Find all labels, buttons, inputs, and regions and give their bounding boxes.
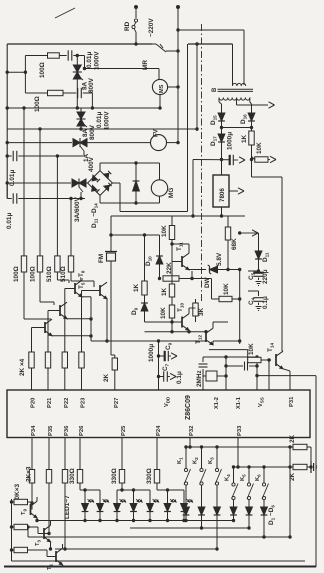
wire +12 rail right [251,160,253,178]
wire [120,211,188,213]
LED2 [97,504,104,512]
wire FM column [110,216,112,252]
diode key [246,507,253,515]
svg-text:100Ω: 100Ω [34,96,41,112]
transistor T7 [74,283,76,294]
svg-text:X1-1: X1-1 [236,397,242,409]
wire MS bottom [159,95,161,108]
triac2 8A 800V [80,108,82,112]
resistor 330R c [154,470,159,484]
resistor 100R g2 [37,256,42,272]
svg-text:800V: 800V [89,124,96,140]
svg-text:330Ω: 330Ω [146,468,153,484]
wire T3 legs [50,521,52,526]
transistor T6 [59,305,61,316]
wire [70,272,72,281]
diode key [261,507,268,515]
diode D16 [248,113,255,121]
diode freewheel MG [135,163,137,181]
svg-text:2K: 2K [103,373,110,382]
diode D15 [218,113,225,121]
LED6 [164,504,171,512]
svg-text:K5: K5 [240,474,247,481]
wire +12 node [193,159,230,161]
svg-text:0.1μ: 0.1μ [262,296,269,309]
wire [209,349,248,351]
transistor T11 [181,256,183,267]
svg-text:2K ×4: 2K ×4 [19,358,26,376]
wire [216,515,218,549]
wire [39,272,41,302]
wire 7806 out [221,207,223,216]
resistor 2K x4 b [45,352,50,368]
wire P24 [156,438,158,470]
resistor 1K mid [169,284,174,297]
wire T8 emitter [106,299,108,341]
LED3 [114,504,121,512]
svg-text:~220V: ~220V [148,18,155,37]
svg-text:0.01μ: 0.01μ [86,52,93,68]
capacitor C4 0.1u [248,290,259,292]
svg-text:10K: 10K [223,283,230,295]
wire T9 emitter [36,518,38,521]
diode D9 [141,303,148,311]
wire [249,365,257,367]
svg-text:10K: 10K [248,343,255,355]
svg-text:FV: FV [154,129,160,137]
svg-text:3A/600V: 3A/600V [74,196,81,222]
wire bridge return [187,44,189,212]
wire T1 legs [62,544,64,548]
wire key rail 2 [234,466,294,468]
IC Z86C09 [7,390,310,438]
svg-text:K2: K2 [193,457,200,464]
pins to IC [31,368,33,390]
resistor 100R g1 [21,256,26,272]
svg-text:LED1~7: LED1~7 [64,495,71,519]
svg-text:K4: K4 [225,474,232,481]
resistor 10K mid [212,298,220,300]
wire [135,9,137,18]
wire base T1 [28,549,48,551]
wire emitter rail [82,296,91,298]
base feeds [31,328,33,353]
resistor 2K k2 [293,464,307,469]
wire [7,71,25,73]
transistor T14 [275,354,277,366]
wire T7 collector [81,278,83,280]
svg-text:10K: 10K [160,307,167,319]
resistor 2K x4 c [62,352,67,368]
svg-text:K6: K6 [255,474,262,481]
bottom border [4,566,316,568]
svg-text:330Ω: 330Ω [111,468,118,484]
key K [233,467,235,483]
wire [177,9,179,143]
svg-text:7806: 7806 [219,188,226,202]
svg-text:2K×3: 2K×3 [26,466,33,482]
crystal 2MHz [203,375,206,377]
transistor T1 [55,551,57,562]
ground C4 [256,306,262,308]
svg-text:K1: K1 [177,457,184,464]
svg-text:P35: P35 [48,425,54,436]
LED4 [130,504,137,512]
resistor 10K upper [171,216,173,226]
wire X1-2 pin [202,376,204,390]
resistor 10K t3 [14,524,28,529]
key K [248,467,250,483]
svg-text:1000μ: 1000μ [227,132,234,150]
wire T10 emitter [188,330,190,331]
wire P34 [31,438,33,470]
capacitor 0.01u left1 [7,155,12,157]
wire row y108 [7,107,160,109]
svg-text:P25: P25 [121,425,127,436]
resistor 2K x4 a [29,352,34,368]
resistor 2K k1 [293,444,307,449]
diode key [198,507,205,515]
resistor 100R snubber2 [25,92,47,94]
resistor 1K [249,131,254,145]
svg-text:2MHz: 2MHz [196,370,203,387]
capacitor xtal2 [224,364,227,367]
wire [185,515,187,521]
transistor T3 [43,528,45,539]
svg-text:2K: 2K [289,434,296,443]
svg-text:510Ω: 510Ω [46,266,53,282]
wire MG top rail [100,162,160,164]
capacitor 0.01u left2 [7,198,12,200]
resistor 330R b [119,470,124,484]
svg-text:P22: P22 [64,398,70,408]
wire to transformer primary [178,29,244,31]
svg-text:K3: K3 [208,457,215,464]
wire mains bus right [188,43,233,45]
diode key [183,507,190,515]
wire ground loop to border [257,375,316,377]
wire MS feed row [85,68,160,70]
svg-text:MG: MG [168,188,175,198]
wire 3A row [7,182,71,184]
svg-text:220μ: 220μ [262,269,269,284]
triac4 3A 600V [72,179,79,187]
svg-text:Z86C09: Z86C09 [185,395,192,420]
wire return rail [196,44,198,131]
svg-text:P31: P31 [289,396,295,407]
wire rail 537 [28,536,290,538]
diode D11b [258,233,260,251]
wire [192,160,194,217]
wire [56,272,58,280]
wire T11 base [172,261,182,263]
wire FV right [167,142,179,144]
key K& [201,447,203,469]
wire rail 520 [37,520,234,522]
diode key [214,507,221,515]
resistor 330R led1 [77,470,82,484]
wire P25 [121,438,123,470]
ground arrow 10K [268,159,270,161]
wire D10 column [159,235,161,256]
resistor 10K t1 [14,547,28,552]
wire T11 emitter [188,269,190,271]
LED1 [82,504,89,512]
wire key rail 1 [186,446,293,448]
wire P36 [64,438,66,470]
wire sense row [111,234,160,236]
resistor 10K t9 [14,499,28,504]
wire MG bottom rail [100,202,160,204]
svg-text:P32: P32 [189,426,195,436]
wire mains bus [7,43,152,45]
wire T11 collector [188,244,190,253]
ground arrow center tap [269,102,275,105]
capacitor C5 220u [257,269,260,272]
key K& [216,447,218,469]
key K& [185,447,187,469]
svg-text:T3: T3 [35,539,42,546]
svg-text:D1 ~D6: D1 ~D6 [268,505,276,525]
svg-text:8A: 8A [82,128,89,137]
wire [192,278,212,280]
diode key [230,507,237,515]
wire snubber2 corner [91,93,93,108]
svg-text:100Ω: 100Ω [30,266,37,282]
triac1 8A 800V [76,54,79,57]
svg-text:1K: 1K [241,134,248,143]
resistor 2K x4 d [79,352,84,368]
capacitor 0.01u 1000V snubber1 [67,50,69,60]
wire emitters to vdd [91,340,159,342]
ground C5 [256,281,262,283]
svg-text:P33: P33 [237,425,243,436]
wire base T3 [28,526,39,528]
svg-text:1K: 1K [133,283,140,292]
wire T9 collector [36,497,38,501]
bridge rectifier D11~D14 [88,171,113,196]
capacitor xtal1 [202,369,204,376]
wire T14 emitter to P31 [283,369,290,371]
resistor 68K [227,216,229,227]
svg-text:RD: RD [124,21,131,31]
svg-text:P34: P34 [31,425,37,436]
wire bridge dc+ [99,163,101,171]
capacitor C7 0.1u [159,376,164,378]
fuse RD [134,19,137,22]
svg-text:330Ω: 330Ω [69,468,76,484]
svg-text:B: B [212,87,218,92]
svg-text:5.8V: 5.8V [216,252,223,266]
buzzer FM [107,253,116,261]
capacitor C3 1000u [229,155,231,165]
earth ground [310,461,312,473]
svg-text:FM: FM [98,254,105,263]
wire led spread c [157,489,184,491]
wire snubber column [24,56,26,94]
svg-text:0.1μ: 0.1μ [176,371,183,384]
transistor T10 [181,317,183,328]
svg-text:P21: P21 [47,397,53,408]
ground arrow aux [245,232,252,234]
wire left rail [6,44,8,199]
wire left col bottom [11,499,13,561]
wire T10 collector [188,308,190,314]
wire bridge dc- [99,195,101,203]
svg-text:1K: 1K [161,287,168,296]
wire vdd feed [239,341,241,344]
resistor 10K t14 [248,357,261,362]
wire [222,127,252,129]
node mains terminal L [134,5,138,9]
svg-text:100Ω: 100Ω [39,62,46,78]
relay contact MR [152,43,156,45]
zener DW [210,266,218,273]
resistor 510R g3 [55,256,60,272]
wire [27,527,29,537]
svg-text:1000μ: 1000μ [148,344,155,362]
svg-text:VDD: VDD [164,396,171,407]
wire led spread a [80,489,100,491]
svg-text:MS: MS [159,84,165,93]
resistor 10K to gnd [252,157,255,160]
wire T12 collector [212,322,214,328]
wire bridge ac right [112,182,120,184]
wire gate col2 [39,129,41,256]
scan mark [55,8,75,18]
wire rail 561 [12,560,306,562]
wire MS right [168,86,178,88]
wire rail 549 [55,548,217,550]
wire snubber1 corner [84,56,86,69]
wire [23,272,25,319]
wire P33 [237,438,239,468]
resistor 1K det [144,235,146,281]
wire led spread b [117,489,150,491]
wire gate col1 [23,108,25,256]
svg-text:10K: 10K [161,225,168,237]
motor MS [152,79,167,94]
wire [248,270,259,272]
wire [201,515,203,528]
wire secondary center tap [236,98,238,106]
wire P26 [79,438,81,470]
capacitor 0.01u snubber2 [77,88,79,98]
resistor 510R g4 [68,256,73,272]
svg-text:T9: T9 [21,508,28,515]
wire secondary left [218,98,220,103]
svg-text:X1-2: X1-2 [214,397,220,409]
wire gate col3 [56,156,58,256]
wire T14 collector [282,350,283,352]
svg-text:400V: 400V [88,156,95,172]
LED5 [147,504,154,512]
chassis boundary [201,24,203,302]
svg-text:P36: P36 [64,425,70,436]
wire P35 [48,438,50,470]
ground arrow 7806 [229,190,238,192]
LED7 [181,504,188,512]
svg-text:0.01μ: 0.01μ [96,112,103,128]
key K [263,467,265,483]
capacitor C9 1000u [159,355,165,357]
wire Vss [256,357,258,390]
svg-text:100Ω: 100Ω [13,266,20,282]
wire T10 base [145,321,183,323]
resistor 22K [163,276,179,281]
node 1K out [250,158,253,161]
wire scan column [289,447,291,537]
svg-text:800V: 800V [88,77,95,93]
svg-text:VSS: VSS [258,397,265,407]
wire row y129 [7,128,197,130]
wire rail 528 [130,527,249,529]
regulator 7806 [221,160,223,176]
wire secondary right [249,98,251,103]
transistor T12 [205,331,207,342]
triac3 1A 400V [73,139,80,147]
resistor 2K b2 [46,470,51,484]
svg-text:P26: P26 [79,425,85,436]
wire VCC rail [111,215,245,217]
svg-text:0.01μ: 0.01μ [9,170,16,186]
wire FV feed [7,142,72,144]
transistor T8 [99,285,101,296]
resistor 2K p27 [111,354,115,356]
svg-text:T1: T1 [47,563,54,570]
svg-text:P24: P24 [156,425,162,436]
valve FV [151,135,167,151]
motor MG [151,180,167,196]
ground arrow C3 [233,159,238,161]
resistor 2K b3 [62,470,67,484]
wire [166,50,178,52]
wire left rail elbow [6,183,8,199]
svg-text:68K: 68K [231,238,238,250]
wire xtal common [203,356,257,358]
resistor 2K b1 [29,470,34,484]
svg-text:10K: 10K [256,142,263,154]
diode D17 [218,134,225,142]
transistor T5 [44,322,46,333]
node mains terminal N [176,5,180,9]
svg-text:P23: P23 [81,397,87,408]
wire T12 emitter row [212,341,214,345]
wire zener col [239,270,241,342]
wire row 331 [145,331,207,333]
wire [268,360,270,390]
transistor T9 [31,502,33,510]
wire P32 [189,438,191,448]
svg-text:1000V: 1000V [94,51,101,70]
svg-text:3K: 3K [198,307,205,316]
diode D10 [156,256,163,264]
wire gate col4 [70,199,72,256]
svg-text:0.01μ: 0.01μ [6,213,13,229]
resistor 100R snubber1 [25,55,47,57]
svg-text:1000V: 1000V [104,111,111,130]
wire X1-1 pin [225,356,227,390]
resistor 10K low [169,305,174,318]
wire [87,142,151,144]
wire [86,182,88,184]
svg-text:P27: P27 [114,398,120,408]
resistor 3K [193,303,198,316]
svg-text:P20: P20 [31,398,37,408]
